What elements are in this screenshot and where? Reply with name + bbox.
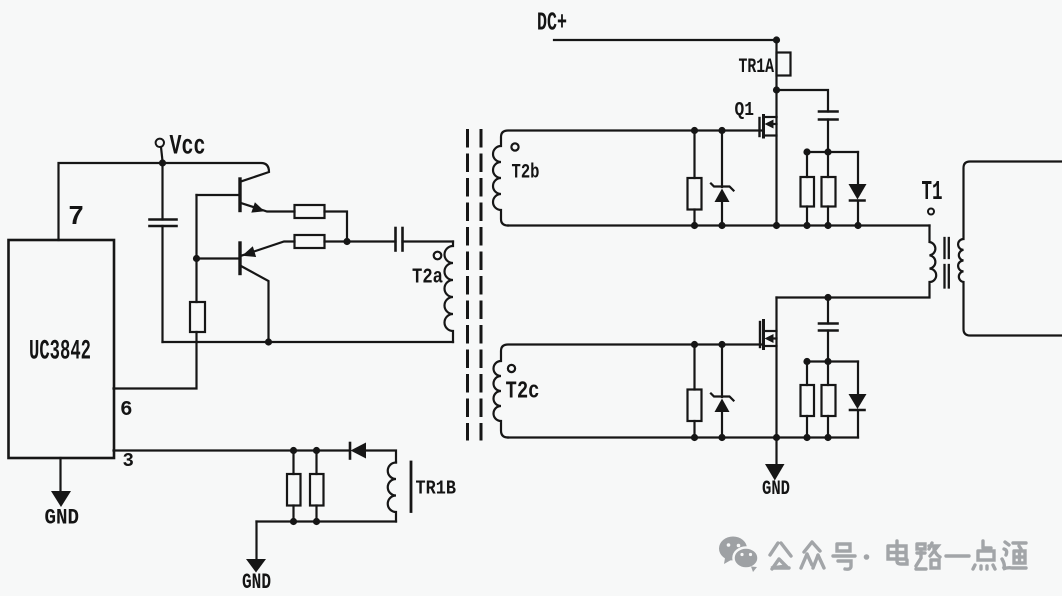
node output junction bbox=[343, 238, 350, 245]
transformer winding T1 primary bbox=[777, 226, 937, 298]
wire upper rail bbox=[508, 224, 930, 226]
resistor R2 bbox=[295, 235, 325, 248]
char 通 bbox=[1002, 542, 1026, 569]
wire pin 7 to Vcc rail bbox=[59, 163, 163, 240]
wire snubber cap branch bbox=[777, 90, 829, 112]
resistor R5 vertical bbox=[310, 474, 324, 506]
diode D2 bbox=[857, 152, 859, 184]
wire lower rail bbox=[508, 436, 858, 438]
svg-text:T2b: T2b bbox=[512, 162, 540, 185]
diode D1 bbox=[349, 443, 352, 459]
transformer T1 core bars bbox=[943, 238, 945, 258]
wire R1 to node bbox=[325, 212, 348, 242]
node Vcc junction bbox=[159, 159, 166, 166]
node gate wire junction a bbox=[691, 127, 698, 134]
svg-text:Vcc: Vcc bbox=[170, 132, 206, 163]
svg-text:3: 3 bbox=[123, 450, 134, 472]
wire C2 to T2a bbox=[403, 240, 454, 242]
transformer winding TR1B bbox=[388, 463, 396, 522]
transistor Q1 mosfet bbox=[762, 116, 765, 138]
char 众 bbox=[801, 542, 824, 568]
capacitor C3 plates bbox=[819, 110, 838, 113]
transistor Q2 mosfet bbox=[775, 298, 777, 438]
resistor R10 bbox=[801, 385, 815, 416]
node drain junction bbox=[773, 86, 780, 93]
node pin3 junction a bbox=[290, 447, 297, 454]
transformer TR1B core bar bbox=[410, 462, 413, 512]
diode D3 bbox=[857, 362, 859, 395]
capacitor C4 plates bbox=[819, 322, 838, 325]
resistor R6 bbox=[688, 178, 702, 210]
capacitor C1 top lead bbox=[161, 163, 163, 220]
svg-text:T2c: T2c bbox=[506, 379, 540, 406]
ground GND3 bbox=[775, 438, 777, 465]
svg-text:6: 6 bbox=[120, 399, 133, 422]
char · bbox=[864, 554, 870, 560]
svg-text:TR1A: TR1A bbox=[739, 56, 775, 79]
svg-text:T1: T1 bbox=[922, 178, 943, 208]
wire snubber2 top bbox=[807, 360, 858, 362]
transistor Q-lower collector bbox=[241, 266, 269, 342]
transistor Q-lower PNP base bar bbox=[238, 243, 241, 274]
node gate2 junction a bbox=[691, 341, 698, 348]
zener Z1 bbox=[721, 131, 723, 188]
capacitor C2 coupling plates bbox=[394, 228, 397, 251]
node T2c phase dot bbox=[508, 365, 515, 372]
node gate wire junction b bbox=[718, 127, 725, 134]
inductor TR1A bbox=[775, 40, 777, 117]
wire snubber top bbox=[807, 151, 858, 153]
wire base node vertical bbox=[195, 195, 197, 302]
svg-text:7: 7 bbox=[68, 203, 84, 233]
char 号 bbox=[833, 544, 855, 569]
wire TR1B bottom return bbox=[257, 520, 397, 522]
wire Q-upper base bbox=[197, 194, 240, 196]
node gate2 junction b bbox=[718, 341, 725, 348]
op-amp U1 UC3842 IC body bbox=[9, 240, 115, 458]
node base junction bbox=[193, 255, 200, 262]
wire snubber2 cap branch bbox=[827, 298, 829, 324]
watermark wechat icon bbox=[719, 537, 759, 573]
transformer winding T2a bbox=[445, 242, 454, 343]
node T2b phase dot bbox=[511, 143, 518, 150]
svg-text:GND: GND bbox=[45, 506, 80, 531]
resistor R11 bbox=[822, 385, 836, 416]
wire driver bottom rail bbox=[163, 341, 454, 343]
svg-text:GND: GND bbox=[242, 570, 271, 595]
resistor R8 bbox=[822, 177, 836, 207]
wire R3 to pin 6 bbox=[114, 332, 197, 389]
node bottom junction b bbox=[313, 518, 320, 525]
svg-text:GND: GND bbox=[762, 478, 790, 501]
wire DC+ rail bbox=[554, 39, 777, 41]
resistor R9 bbox=[688, 390, 702, 422]
resistor R3 vertical bbox=[190, 302, 205, 332]
ground GND2 bbox=[255, 522, 257, 560]
Vcc terminal bbox=[156, 139, 164, 147]
char 公 bbox=[770, 543, 791, 569]
node T1 phase dot bbox=[928, 209, 934, 215]
watermark text 公众号·电路一点通 bbox=[770, 541, 1026, 569]
wire Q-lower base bbox=[197, 257, 240, 259]
resistor R7 bbox=[801, 177, 815, 207]
char 点 bbox=[973, 541, 995, 569]
transformer winding T2c bbox=[494, 345, 762, 438]
node T2a phase dot bbox=[434, 252, 442, 260]
svg-text:TR1B: TR1B bbox=[416, 478, 457, 500]
transistor Q-upper NPN base bar bbox=[238, 179, 241, 211]
wire R2 left to Q-lower emitter with arrow bbox=[242, 242, 295, 256]
transformer core dashed lines bbox=[466, 131, 469, 440]
wire pin 3 bbox=[114, 449, 351, 451]
resistor R1 bbox=[295, 205, 325, 218]
capacitor C1 plates bbox=[150, 218, 177, 221]
svg-text:T2a: T2a bbox=[412, 267, 443, 290]
svg-text:DC+: DC+ bbox=[537, 8, 567, 38]
wire R2 right to coupling cap bbox=[325, 240, 396, 242]
zener Z2 bbox=[721, 345, 723, 398]
transistor Q-upper emitter with arrow bbox=[241, 203, 295, 212]
wire Vcc rail to Q-upper collector bbox=[163, 163, 270, 182]
transformer winding T2b bbox=[493, 131, 762, 226]
char 电 bbox=[888, 541, 907, 564]
resistor R4 vertical bbox=[287, 474, 301, 506]
svg-text:Q1: Q1 bbox=[735, 99, 755, 121]
capacitor C1 bottom lead bbox=[161, 226, 163, 342]
node bottom junction a bbox=[290, 518, 297, 525]
node drain2 cap junction bbox=[824, 294, 831, 301]
char 路 bbox=[916, 543, 940, 569]
transformer winding T1 secondary bbox=[958, 162, 1062, 336]
char 一 bbox=[946, 554, 969, 557]
svg-text:UC3842: UC3842 bbox=[29, 337, 91, 368]
node collector-rail junction bbox=[265, 338, 272, 345]
node pin3 junction b bbox=[313, 447, 320, 454]
ground GND1 bbox=[59, 458, 61, 491]
